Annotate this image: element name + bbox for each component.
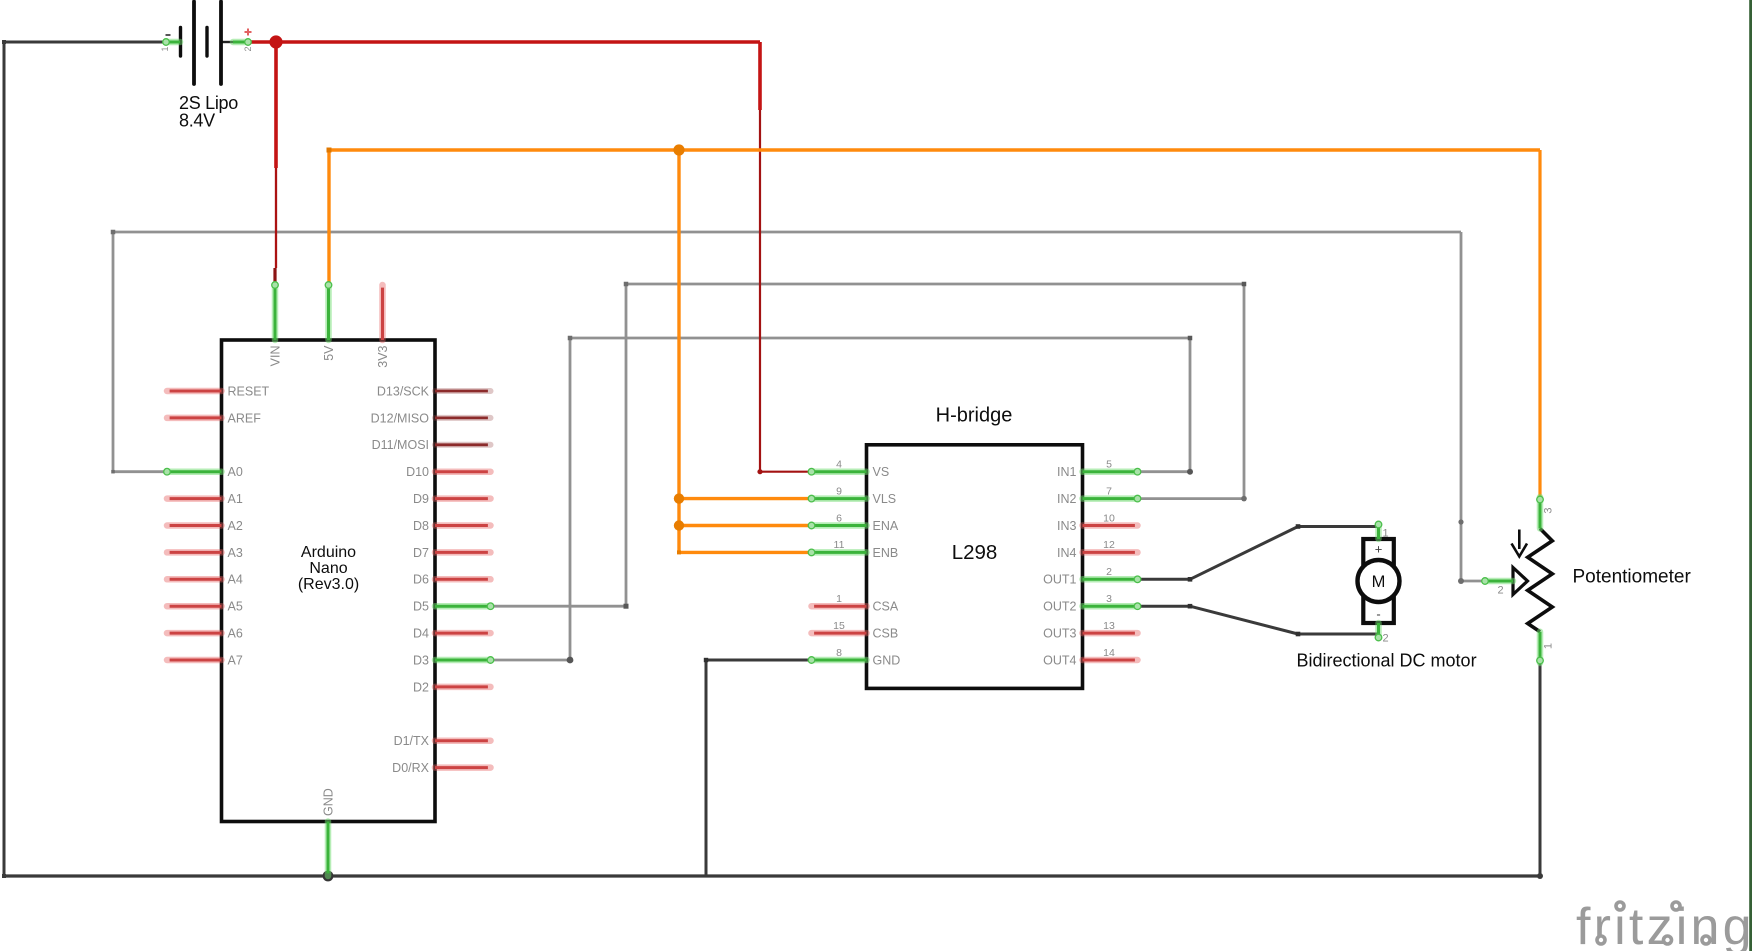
svg-text:IN4: IN4 <box>1057 546 1077 560</box>
svg-text:A7: A7 <box>228 653 243 667</box>
svg-text:8: 8 <box>836 647 842 659</box>
svg-text:15: 15 <box>833 620 845 632</box>
svg-text:D4: D4 <box>413 627 429 641</box>
svg-text:VS: VS <box>873 465 890 479</box>
svg-text:ENA: ENA <box>873 519 899 533</box>
svg-text:H-bridge: H-bridge <box>936 405 1013 427</box>
svg-text:D7: D7 <box>413 546 429 560</box>
svg-text:1: 1 <box>1543 643 1555 649</box>
svg-text:Bidirectional DC motor: Bidirectional DC motor <box>1297 651 1477 671</box>
svg-text:OUT4: OUT4 <box>1043 653 1076 667</box>
svg-text:IN2: IN2 <box>1057 492 1077 506</box>
svg-text:3: 3 <box>1543 508 1555 514</box>
svg-text:7: 7 <box>1106 485 1112 497</box>
svg-text:10: 10 <box>1103 512 1115 524</box>
svg-text:A6: A6 <box>228 627 243 641</box>
svg-text:8.4V: 8.4V <box>179 111 215 131</box>
svg-text:3: 3 <box>1106 593 1112 605</box>
svg-text:D8: D8 <box>413 519 429 533</box>
svg-text:D3: D3 <box>413 653 429 667</box>
svg-text:Nano: Nano <box>309 560 347 577</box>
svg-text:CSA: CSA <box>873 600 899 614</box>
svg-text:A3: A3 <box>228 546 243 560</box>
svg-text:D9: D9 <box>413 492 429 506</box>
svg-text:A5: A5 <box>228 600 243 614</box>
svg-text:Potentiometer: Potentiometer <box>1573 567 1692 588</box>
svg-text:RESET: RESET <box>228 384 270 398</box>
svg-text:D2: D2 <box>413 680 429 694</box>
svg-text:(Rev3.0): (Rev3.0) <box>298 576 359 593</box>
svg-text:+: + <box>1375 542 1383 557</box>
svg-text:1: 1 <box>1383 528 1389 540</box>
svg-text:D6: D6 <box>413 573 429 587</box>
svg-text:-: - <box>1376 607 1380 622</box>
svg-text:3V3: 3V3 <box>376 345 390 367</box>
svg-text:OUT3: OUT3 <box>1043 627 1076 641</box>
svg-text:A2: A2 <box>228 519 243 533</box>
svg-text:D10: D10 <box>406 465 429 479</box>
svg-text:14: 14 <box>1103 647 1115 659</box>
svg-text:Arduino: Arduino <box>301 544 356 561</box>
svg-text:2: 2 <box>1383 633 1389 645</box>
svg-text:12: 12 <box>1103 539 1115 551</box>
svg-text:M: M <box>1372 573 1386 591</box>
svg-text:VLS: VLS <box>873 492 897 506</box>
svg-text:6: 6 <box>836 512 842 524</box>
svg-text:AREF: AREF <box>228 411 262 425</box>
svg-text:1: 1 <box>836 593 842 605</box>
svg-text:9: 9 <box>836 485 842 497</box>
svg-text:VIN: VIN <box>269 346 283 367</box>
svg-text:ENB: ENB <box>873 546 899 560</box>
svg-text:D13/SCK: D13/SCK <box>377 384 430 398</box>
svg-text:11: 11 <box>834 539 845 551</box>
svg-text:OUT1: OUT1 <box>1043 573 1076 587</box>
svg-text:IN3: IN3 <box>1057 519 1077 533</box>
svg-text:D11/MOSI: D11/MOSI <box>372 438 429 452</box>
svg-text:A0: A0 <box>228 465 243 479</box>
svg-text:A4: A4 <box>228 573 243 587</box>
svg-text:D0/RX: D0/RX <box>392 761 429 775</box>
svg-text:D5: D5 <box>413 600 429 614</box>
svg-text:1: 1 <box>160 47 170 52</box>
svg-text:2: 2 <box>1497 585 1503 597</box>
svg-text:GND: GND <box>322 788 336 816</box>
svg-text:13: 13 <box>1103 620 1115 632</box>
svg-text:5V: 5V <box>322 345 336 361</box>
svg-text:D1/TX: D1/TX <box>394 734 430 748</box>
svg-text:4: 4 <box>836 459 842 471</box>
svg-text:2: 2 <box>243 47 253 52</box>
svg-text:L298: L298 <box>952 541 998 564</box>
svg-text:2: 2 <box>1106 566 1112 578</box>
svg-text:5: 5 <box>1106 459 1112 471</box>
svg-text:CSB: CSB <box>873 627 899 641</box>
svg-text:D12/MISO: D12/MISO <box>371 411 430 425</box>
svg-text:OUT2: OUT2 <box>1043 600 1076 614</box>
svg-text:GND: GND <box>873 653 901 667</box>
svg-text:A1: A1 <box>228 492 243 506</box>
svg-text:IN1: IN1 <box>1057 465 1077 479</box>
